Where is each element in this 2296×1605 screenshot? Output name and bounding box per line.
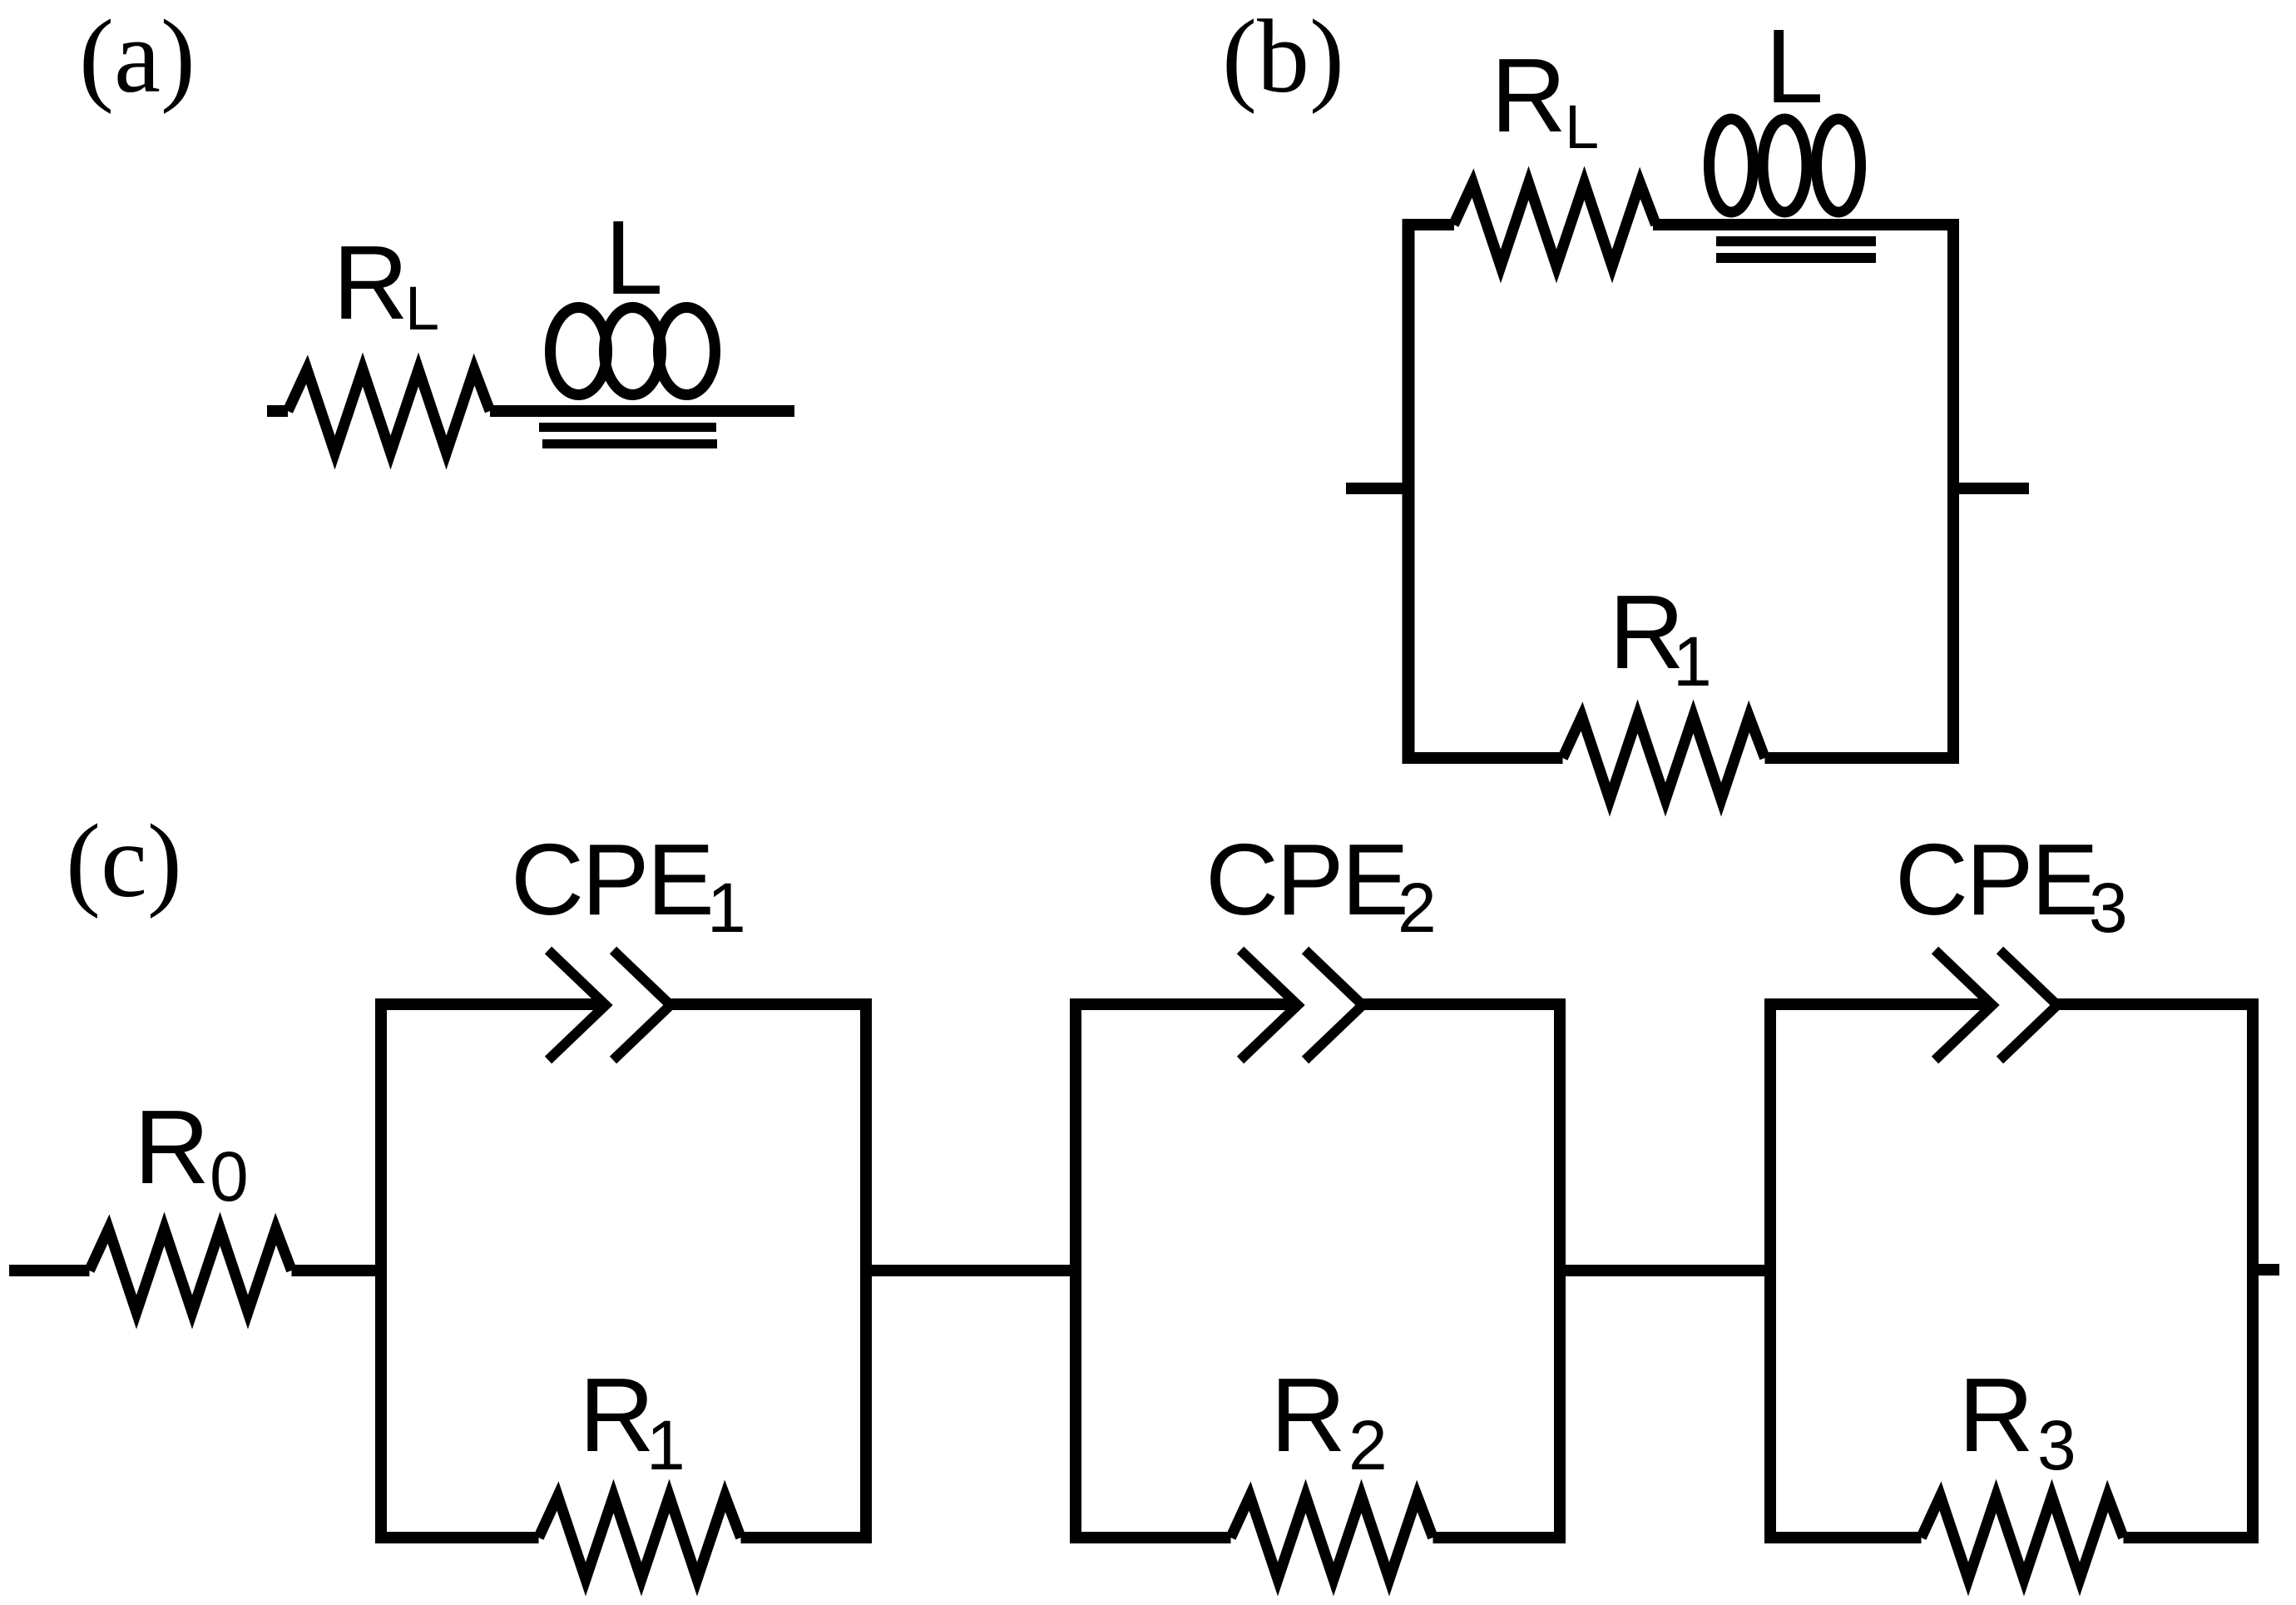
svg-text:1: 1 — [1673, 622, 1712, 701]
svg-text:3: 3 — [2037, 1406, 2076, 1484]
bottom wire segment before resistor panel b — [1403, 752, 1563, 764]
box2 bottom wire right of R2 — [1433, 1532, 1566, 1543]
box3 bottom wire right of R3 — [2124, 1532, 2259, 1543]
svg-text:3: 3 — [2089, 869, 2128, 947]
wire right panel a — [490, 405, 794, 417]
inductor core line 1 panel a — [539, 423, 716, 432]
box2 left edge — [1070, 998, 1081, 1543]
resistor RL panel a — [288, 369, 490, 453]
wire left stub panel a — [267, 405, 288, 417]
inductor core line 1 panel b — [1716, 236, 1876, 246]
CPE2 symbol chevron 1 — [1240, 950, 1298, 1060]
CPE1 symbol chevron 2 — [613, 950, 670, 1060]
svg-text:CPE: CPE — [511, 823, 712, 936]
input wire panel c — [9, 1265, 90, 1276]
left lead panel b — [1346, 483, 1408, 494]
svg-text:L: L — [605, 199, 663, 316]
box1 top wire left of CPE1 — [375, 998, 606, 1010]
svg-text:R: R — [1958, 1356, 2034, 1474]
svg-text:CPE: CPE — [1895, 823, 2096, 936]
inductor core line 2 panel a — [542, 439, 717, 448]
box left edge panel b — [1403, 219, 1415, 764]
box3 right edge — [2247, 998, 2259, 1543]
box3 top wire right of CPE3 — [2057, 998, 2259, 1010]
wire R0 to box1 — [292, 1265, 382, 1276]
resistor R2 — [1231, 1496, 1433, 1579]
svg-text:R: R — [333, 224, 408, 341]
svg-text:R: R — [579, 1356, 655, 1474]
CPE3 symbol chevron 2 — [2000, 950, 2057, 1060]
CPE2 symbol chevron 2 — [1305, 950, 1363, 1060]
svg-text:1: 1 — [646, 1406, 685, 1484]
wire box1 to box2 — [866, 1265, 1076, 1276]
svg-text:(a): (a) — [79, 0, 195, 115]
svg-text:2: 2 — [1348, 1406, 1388, 1484]
box1 bottom wire left of R1 — [375, 1532, 539, 1543]
CPE1 symbol chevron 1 — [548, 950, 606, 1060]
resistor RL panel b (top branch) — [1454, 183, 1656, 266]
box1 right edge — [860, 998, 872, 1543]
svg-text:R: R — [1491, 37, 1566, 154]
svg-text:0: 0 — [210, 1137, 249, 1216]
svg-text:(b): (b) — [1222, 0, 1344, 115]
inductor L panel b — [1710, 119, 1861, 212]
svg-text:R: R — [134, 1088, 210, 1206]
box1 bottom wire right of R1 — [741, 1532, 873, 1543]
wire box2 to box3 — [1560, 1265, 1770, 1276]
inductor L panel a — [551, 308, 715, 395]
inductor core line 2 panel b — [1716, 253, 1876, 263]
resistor R1 panel b (bottom branch) — [1563, 716, 1765, 800]
box3 top wire left of CPE3 — [1764, 998, 1992, 1010]
right lead panel b — [1953, 483, 2029, 494]
svg-text:2: 2 — [1398, 869, 1437, 947]
CPE3 symbol chevron 1 — [1935, 950, 1992, 1060]
svg-text:R: R — [1270, 1356, 1346, 1474]
box2 right edge — [1554, 998, 1566, 1543]
svg-text:L: L — [1565, 92, 1599, 161]
top wire segment before resistor panel b — [1403, 219, 1454, 230]
svg-text:CPE: CPE — [1205, 823, 1407, 936]
svg-text:1: 1 — [707, 869, 746, 947]
box1 left edge — [375, 998, 387, 1543]
output wire stub panel c — [2253, 1264, 2279, 1276]
box1 top wire right of CPE1 — [670, 998, 872, 1010]
resistor R3 — [1922, 1496, 2124, 1579]
box right edge panel b — [1947, 219, 1959, 764]
box3 bottom wire left of R3 — [1764, 1532, 1922, 1543]
box2 top wire right of CPE2 — [1363, 998, 1566, 1010]
bottom wire segment after resistor panel b — [1765, 752, 1960, 764]
svg-text:L: L — [1765, 7, 1823, 125]
svg-text:L: L — [405, 274, 439, 343]
box2 bottom wire left of R2 — [1070, 1532, 1231, 1543]
resistor R0 — [90, 1229, 292, 1312]
svg-text:(c): (c) — [66, 804, 182, 919]
box2 top wire left of CPE2 — [1070, 998, 1298, 1010]
top wire segment after resistor panel b — [1653, 219, 1953, 230]
resistor R1 panel c — [539, 1496, 741, 1579]
box3 left edge — [1764, 998, 1776, 1543]
